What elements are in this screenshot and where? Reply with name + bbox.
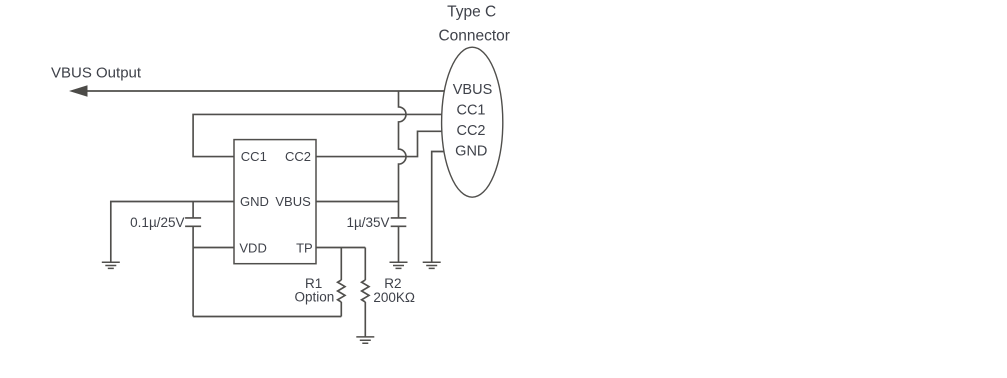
svg-text:Option: Option bbox=[295, 290, 335, 305]
svg-text:VBUS: VBUS bbox=[453, 82, 493, 98]
svg-text:R2: R2 bbox=[384, 276, 401, 291]
svg-text:Type C: Type C bbox=[447, 4, 496, 21]
svg-text:VDD: VDD bbox=[239, 240, 266, 255]
svg-text:Connector: Connector bbox=[438, 28, 510, 45]
svg-text:TP: TP bbox=[296, 240, 313, 255]
svg-text:VBUS Output: VBUS Output bbox=[51, 64, 142, 81]
svg-text:0.1µ/25V: 0.1µ/25V bbox=[130, 215, 184, 230]
svg-text:VBUS: VBUS bbox=[275, 194, 311, 209]
svg-text:200KΩ: 200KΩ bbox=[373, 290, 415, 305]
svg-text:1µ/35V: 1µ/35V bbox=[346, 215, 389, 230]
svg-text:CC2: CC2 bbox=[285, 149, 311, 164]
svg-text:CC2: CC2 bbox=[456, 123, 485, 139]
svg-text:CC1: CC1 bbox=[241, 149, 267, 164]
svg-text:GND: GND bbox=[455, 143, 487, 159]
svg-text:CC1: CC1 bbox=[456, 102, 485, 118]
svg-text:GND: GND bbox=[240, 194, 269, 209]
